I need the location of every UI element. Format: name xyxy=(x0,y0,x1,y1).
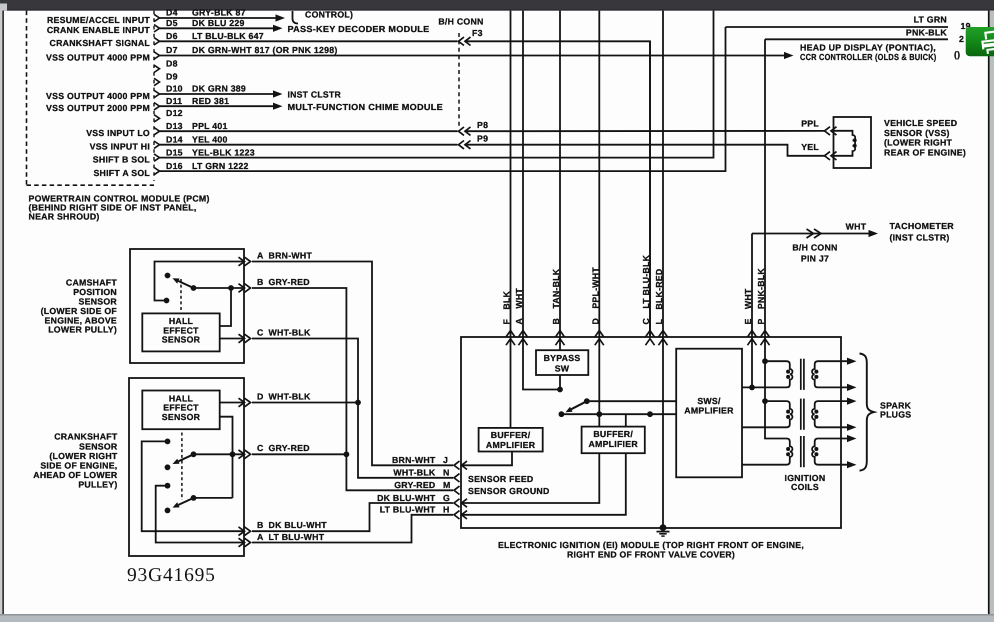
svg-text:DK GRN 389: DK GRN 389 xyxy=(192,84,246,94)
buffer/amplifier box 1 xyxy=(479,428,543,452)
EI module caption xyxy=(498,540,804,559)
svg-text:YEL 400: YEL 400 xyxy=(192,134,228,144)
svg-text:PLUGS: PLUGS xyxy=(880,410,911,420)
svg-text:(LOWER RIGHT: (LOWER RIGHT xyxy=(49,451,118,461)
svg-text:PNK-BLK: PNK-BLK xyxy=(906,27,948,37)
svg-text:MULT-FUNCTION CHIME MODULE: MULT-FUNCTION CHIME MODULE xyxy=(288,102,444,112)
svg-text:BYPASS: BYPASS xyxy=(544,353,581,363)
PCM pin D4 xyxy=(154,8,246,22)
svg-text:D13: D13 xyxy=(166,121,183,131)
camshaft magnetic coupling dashed xyxy=(180,279,182,312)
crankshaft switch 2 lever xyxy=(191,495,197,501)
svg-text:VSS INPUT HI: VSS INPUT HI xyxy=(90,142,150,152)
PCM pin D5 xyxy=(154,18,245,32)
SWS/amplifier box xyxy=(676,349,742,478)
EI internal: branch to buffer 2 xyxy=(625,414,627,426)
svg-text:DK BLU-WHT: DK BLU-WHT xyxy=(377,493,436,503)
svg-text:P PNK-BLK: P PNK-BLK xyxy=(756,268,766,325)
PCM pin D7 xyxy=(154,45,338,59)
svg-text:E WHT: E WHT xyxy=(743,288,753,324)
svg-text:(LOWER RIGHT: (LOWER RIGHT xyxy=(884,138,953,148)
wire E WHT vertical (tach) xyxy=(751,234,753,338)
svg-text:SHIFT A SOL: SHIFT A SOL xyxy=(93,168,150,178)
viewer top toolbar bar xyxy=(0,0,994,11)
page left edge line xyxy=(0,11,2,614)
svg-text:GRY-RED: GRY-RED xyxy=(394,480,435,490)
svg-text:CCR CONTROLLER (OLDS & BUICK): CCR CONTROLLER (OLDS & BUICK) xyxy=(800,52,937,62)
EI internal: signal line to SWS xyxy=(561,413,676,415)
svg-text:VSS OUTPUT 4000 PPM: VSS OUTPUT 4000 PPM xyxy=(46,52,150,62)
PCM module caption xyxy=(29,193,210,221)
svg-text:D7: D7 xyxy=(166,45,178,55)
svg-text:LOWER PULLY): LOWER PULLY) xyxy=(48,325,117,335)
svg-text:P8: P8 xyxy=(477,120,488,130)
svg-text:WHT-BLK: WHT-BLK xyxy=(269,391,312,401)
svg-text:D11: D11 xyxy=(166,96,182,106)
wire B TAN-BLK vertical xyxy=(559,11,561,337)
svg-text:LT BLU-WHT: LT BLU-WHT xyxy=(380,505,436,515)
page right edge line xyxy=(988,11,990,614)
svg-text:SW: SW xyxy=(555,363,570,373)
svg-text:M: M xyxy=(443,480,451,490)
svg-text:SWS/: SWS/ xyxy=(697,396,721,406)
camshaft junction to hall sensor xyxy=(228,285,234,291)
wire D6 LT BLU-BLK 647 to B/H conn F3 xyxy=(160,40,458,42)
svg-text:CRANKSHAFT: CRANKSHAFT xyxy=(54,432,118,442)
camshaft hall effect sensor box xyxy=(142,313,219,351)
EI internal switch contact xyxy=(559,411,565,417)
VSS connector YEL xyxy=(801,142,836,160)
EI internal: G to buffer 2 xyxy=(461,453,599,503)
svg-text:DK BLU 229: DK BLU 229 xyxy=(192,18,245,28)
electronic ignition EI module box xyxy=(461,337,841,528)
svg-text:VEHICLE SPEED: VEHICLE SPEED xyxy=(884,118,957,128)
svg-text:PIN J7: PIN J7 xyxy=(801,254,829,264)
svg-text:SENSOR GROUND: SENSOR GROUND xyxy=(468,486,550,496)
camshaft switch contact lower + link to pin A xyxy=(164,298,170,304)
svg-text:WHT-BLK: WHT-BLK xyxy=(393,468,436,478)
svg-text:RESUME/ACCEL INPUT: RESUME/ACCEL INPUT xyxy=(47,15,150,25)
crankshaft switch 1 upper contact to pin B xyxy=(165,439,171,445)
svg-text:WHT: WHT xyxy=(846,222,867,232)
svg-text:GRY-RED: GRY-RED xyxy=(269,443,310,453)
svg-text:(INST CLSTR): (INST CLSTR) xyxy=(890,232,950,242)
wire C GRY-RED joins sensor ground xyxy=(252,453,346,455)
PCM pin D8 xyxy=(154,59,178,73)
wire D10 DK GRN 389 to inst clstr xyxy=(160,90,283,97)
svg-text:RIGHT END OF FRONT VALVE COVER: RIGHT END OF FRONT VALVE COVER) xyxy=(567,550,735,560)
PCM pin D15 xyxy=(154,147,255,161)
green print button xyxy=(966,27,994,56)
wire D4 GRY-BLK 87 to control xyxy=(160,14,286,21)
svg-text:B: B xyxy=(257,277,264,287)
svg-text:2: 2 xyxy=(959,34,964,44)
EI internal switch lever xyxy=(571,401,587,409)
svg-text:93G41695: 93G41695 xyxy=(127,565,216,586)
PCM pin D9 xyxy=(154,72,178,86)
svg-text:SENSOR: SENSOR xyxy=(162,335,201,345)
svg-text:N: N xyxy=(443,468,450,478)
svg-text:BRN-WHT: BRN-WHT xyxy=(269,250,313,260)
connector P8 xyxy=(459,120,489,136)
svg-text:B/H CONN: B/H CONN xyxy=(438,17,483,27)
svg-text:SENSOR (VSS): SENSOR (VSS) xyxy=(884,128,950,138)
svg-text:PPL 401: PPL 401 xyxy=(192,121,228,131)
camshaft pin A xyxy=(239,250,313,265)
EI internal switch pivot to SWS xyxy=(584,398,590,404)
svg-text:COILS: COILS xyxy=(791,482,819,492)
svg-text:C: C xyxy=(257,443,264,453)
svg-text:A WHT: A WHT xyxy=(514,288,524,325)
svg-text:LT BLU-WHT: LT BLU-WHT xyxy=(269,532,325,542)
wire L BLK-RED vertical xyxy=(662,11,664,337)
svg-text:L BLK-RED: L BLK-RED xyxy=(654,269,664,325)
camshaft pin B xyxy=(239,277,310,292)
svg-text:GRY-BLK 87: GRY-BLK 87 xyxy=(192,8,246,18)
svg-text:D15: D15 xyxy=(166,147,183,157)
crankshaft hall link to common xyxy=(220,417,233,498)
svg-text:P9: P9 xyxy=(477,133,488,143)
svg-text:NEAR SHROUD): NEAR SHROUD) xyxy=(29,212,100,222)
PCM pin D12 xyxy=(154,108,183,122)
wire F3 to EI module pin C (LT BLU-BLK) xyxy=(465,41,651,337)
crankshaft pin C xyxy=(239,443,310,458)
svg-text:PULLEY): PULLEY) xyxy=(78,480,117,490)
EI module pin J BRN-WHT xyxy=(392,455,467,469)
wire D5 DK BLU 229 to pass-key module xyxy=(160,25,283,32)
svg-text:AMPLIFIER: AMPLIFIER xyxy=(486,440,536,450)
svg-text:HEAD UP DISPLAY (PONTIAC),: HEAD UP DISPLAY (PONTIAC), xyxy=(800,43,936,53)
VSS pickup coil xyxy=(834,131,855,156)
hook remnant above (cut text CONTROL) xyxy=(293,11,299,24)
svg-text:BUFFER/: BUFFER/ xyxy=(593,429,633,439)
svg-text:(): () xyxy=(954,50,960,60)
svg-text:LT GRN: LT GRN xyxy=(914,15,947,25)
VSS connector PPL xyxy=(801,119,836,136)
wire C LT BLU-BLK vertical (from F3) xyxy=(649,41,651,337)
wire A BRN-WHT to EI pin J xyxy=(252,262,453,466)
crankshaft common junction to pin C xyxy=(230,451,236,457)
svg-text:REAR OF ENGINE): REAR OF ENGINE) xyxy=(884,147,966,157)
svg-text:F BLK: F BLK xyxy=(502,290,512,324)
svg-text:CONTROL): CONTROL) xyxy=(305,9,353,19)
svg-text:D10: D10 xyxy=(166,84,183,94)
svg-text:B/H CONN: B/H CONN xyxy=(792,243,837,253)
ignition coil 1 xyxy=(742,358,857,391)
camshaft switch lever xyxy=(191,285,197,291)
EI internal: A joins bypass lead xyxy=(523,337,560,390)
svg-text:CRANK ENABLE INPUT: CRANK ENABLE INPUT xyxy=(47,25,151,35)
wire D14 YEL 400 to B/H conn P9 xyxy=(160,144,458,146)
PCM dashed box (powertrain control module) xyxy=(26,11,28,186)
camshaft pin C xyxy=(239,327,312,342)
EI module pin M GRY-RED xyxy=(394,480,459,494)
svg-text:D8: D8 xyxy=(166,59,178,69)
crankshaft pin A xyxy=(239,532,325,547)
svg-text:SIDE OF ENGINE,: SIDE OF ENGINE, xyxy=(40,461,117,471)
wire D15 YEL-BLK 1223 up off page xyxy=(160,11,714,158)
svg-text:DK BLU-WHT: DK BLU-WHT xyxy=(269,520,328,530)
wire P8 PPL to VSS xyxy=(465,130,826,132)
svg-text:A: A xyxy=(257,250,264,260)
crankshaft switch 1 lever xyxy=(191,451,197,457)
wire D PPL-WHT vertical xyxy=(598,11,600,337)
crankshaft sensor box xyxy=(129,378,244,556)
svg-text:VSS INPUT LO: VSS INPUT LO xyxy=(86,128,150,138)
crankshaft hall effect sensor box xyxy=(142,391,219,430)
crankshaft sensor caption xyxy=(33,432,118,490)
svg-text:WHT-BLK: WHT-BLK xyxy=(269,327,312,337)
svg-text:D5: D5 xyxy=(166,18,178,28)
crankshaft pin D xyxy=(239,391,312,406)
svg-text:BUFFER/: BUFFER/ xyxy=(491,430,531,440)
crankshaft pin D wire from hall box xyxy=(220,402,244,404)
wire D16 LT GRN 1222 up to LT GRN lead xyxy=(160,27,726,171)
svg-text:AHEAD OF LOWER: AHEAD OF LOWER xyxy=(33,470,118,480)
EI internal: H to buffer 2 xyxy=(461,453,626,515)
EI internal: B to bypass switch xyxy=(559,337,561,350)
crankshaft pin B xyxy=(239,520,328,535)
PCM pin D6 xyxy=(154,31,264,45)
svg-text:SENSOR FEED: SENSOR FEED xyxy=(468,474,533,484)
svg-text:J: J xyxy=(443,455,448,465)
EI module pin N WHT-BLK xyxy=(393,468,459,482)
ignition coil 3 xyxy=(742,435,857,468)
crankshaft magnetic coupling dashed xyxy=(181,433,183,501)
svg-text:INST CLSTR: INST CLSTR xyxy=(288,90,342,100)
PCM pin D13 xyxy=(154,121,228,135)
wire P9 YEL to VSS xyxy=(465,145,826,156)
svg-text:DK GRN-WHT 817 (OR PNK 1298): DK GRN-WHT 817 (OR PNK 1298) xyxy=(192,45,338,55)
EI module pin H LT BLU-WHT xyxy=(380,505,467,519)
wire A WHT vertical xyxy=(522,11,524,337)
viewer bottom bar xyxy=(0,614,994,622)
EI internal: D to buffer 2 xyxy=(598,337,600,427)
svg-text:H: H xyxy=(443,505,450,515)
wire C WHT-BLK down xyxy=(252,339,453,478)
PCM pin D14 xyxy=(154,134,228,148)
wire D WHT-BLK joins sensor feed xyxy=(252,402,358,404)
svg-text:PPL: PPL xyxy=(801,119,819,129)
svg-text:D14: D14 xyxy=(166,134,183,144)
svg-text:D16: D16 xyxy=(166,161,183,171)
B/H conn pin J7 chevrons xyxy=(807,229,822,238)
svg-text:VSS OUTPUT 2000 PPM: VSS OUTPUT 2000 PPM xyxy=(46,103,150,113)
svg-text:RED 381: RED 381 xyxy=(192,96,229,106)
svg-text:C LT BLU-BLK: C LT BLU-BLK xyxy=(641,254,651,324)
svg-text:D PPL-WHT: D PPL-WHT xyxy=(590,267,600,325)
svg-text:GRY-RED: GRY-RED xyxy=(269,277,310,287)
wire B DK BLU-WHT to EI pin G xyxy=(252,503,453,531)
EI internal: P feeds coil primaries xyxy=(765,337,787,439)
camshaft sensor caption xyxy=(41,278,118,335)
ignition coils caption xyxy=(785,473,826,492)
svg-text:B: B xyxy=(257,520,264,530)
svg-text:SENSOR: SENSOR xyxy=(79,441,118,451)
svg-text:TACHOMETER: TACHOMETER xyxy=(890,221,955,231)
camshaft pin C wire from hall box xyxy=(220,338,244,340)
PCM pin D16 xyxy=(154,161,249,175)
svg-text:SENSOR: SENSOR xyxy=(162,412,201,422)
svg-text:BRN-WHT: BRN-WHT xyxy=(392,455,436,465)
spark plugs caption xyxy=(880,400,912,419)
svg-text:D12: D12 xyxy=(166,108,183,118)
ground symbol xyxy=(657,524,670,536)
EI module pin G DK BLU-WHT xyxy=(377,493,467,507)
EI internal: J to buffer 1 xyxy=(461,452,512,466)
wire F BLK vertical xyxy=(510,11,512,337)
connector F3 xyxy=(459,28,483,46)
crankshaft switch 2 lower contact xyxy=(165,508,171,514)
camshaft position sensor box xyxy=(130,249,244,363)
PCM pin D11 xyxy=(154,96,229,110)
svg-text:YEL: YEL xyxy=(801,142,819,152)
svg-text:B TAN-BLK: B TAN-BLK xyxy=(551,268,561,324)
svg-text:D: D xyxy=(257,391,264,401)
B/H CONN bulkhead connector dashed line xyxy=(458,33,460,126)
svg-text:VSS OUTPUT 4000 PPM: VSS OUTPUT 4000 PPM xyxy=(46,91,150,101)
svg-text:AMPLIFIER: AMPLIFIER xyxy=(588,439,638,449)
wire D13 PPL 401 to B/H conn P8 xyxy=(160,130,458,132)
EI internal: C junction xyxy=(647,411,653,417)
svg-text:D4: D4 xyxy=(166,8,178,18)
bypass switch box xyxy=(536,350,588,375)
svg-text:CRANKSHAFT SIGNAL: CRANKSHAFT SIGNAL xyxy=(50,38,151,48)
svg-text:G: G xyxy=(443,493,450,503)
EI internal: L to ground xyxy=(662,337,664,528)
svg-text:LT GRN 1222: LT GRN 1222 xyxy=(192,161,249,171)
buffer/amplifier box 2 xyxy=(582,427,645,454)
svg-text:D9: D9 xyxy=(166,72,178,82)
wire A LT BLU-WHT to EI pin H xyxy=(252,515,453,543)
EI internal: F to buffer 1 xyxy=(510,337,512,428)
svg-text:C: C xyxy=(257,327,264,337)
svg-text:F3: F3 xyxy=(472,28,483,38)
svg-text:YEL-BLK 1223: YEL-BLK 1223 xyxy=(192,147,255,157)
camshaft switch contact upper xyxy=(165,273,171,279)
VSS caption xyxy=(884,118,966,157)
EI module entry connectors xyxy=(506,331,770,346)
ignition coil 2 xyxy=(742,398,857,431)
wire P PNK-BLK vertical xyxy=(764,39,766,337)
svg-text:AMPLIFIER: AMPLIFIER xyxy=(684,406,734,416)
wire E WHT to tachometer xyxy=(752,230,878,245)
wire LT GRN (shift A) to terminal 19 xyxy=(726,26,949,28)
PCM pin D10 xyxy=(154,84,246,98)
svg-text:PASS-KEY DECODER MODULE: PASS-KEY DECODER MODULE xyxy=(288,24,430,34)
wire B GRY-RED down xyxy=(252,288,453,490)
crankshaft switch 2 link xyxy=(194,497,233,499)
wire D7 DK GRN-WHT 817 to head up display xyxy=(160,52,794,59)
svg-text:A: A xyxy=(257,532,264,542)
crankshaft switch 2 upper contact to pin A xyxy=(165,483,171,489)
vehicle speed sensor box xyxy=(834,117,872,168)
EI internal: E taps coil 1 feed xyxy=(751,337,753,387)
wire D11 RED 381 to chime module xyxy=(160,103,283,110)
svg-text:SHIFT B SOL: SHIFT B SOL xyxy=(93,154,151,164)
spark plugs brace xyxy=(860,354,875,471)
wire PNK-BLK (ign feed) to terminal 2 xyxy=(765,38,948,40)
svg-text:LT BLU-BLK 647: LT BLU-BLK 647 xyxy=(192,31,264,41)
connector P9 xyxy=(459,133,489,149)
crankshaft switch 1 lower contact xyxy=(165,464,171,470)
svg-text:D6: D6 xyxy=(166,31,178,41)
